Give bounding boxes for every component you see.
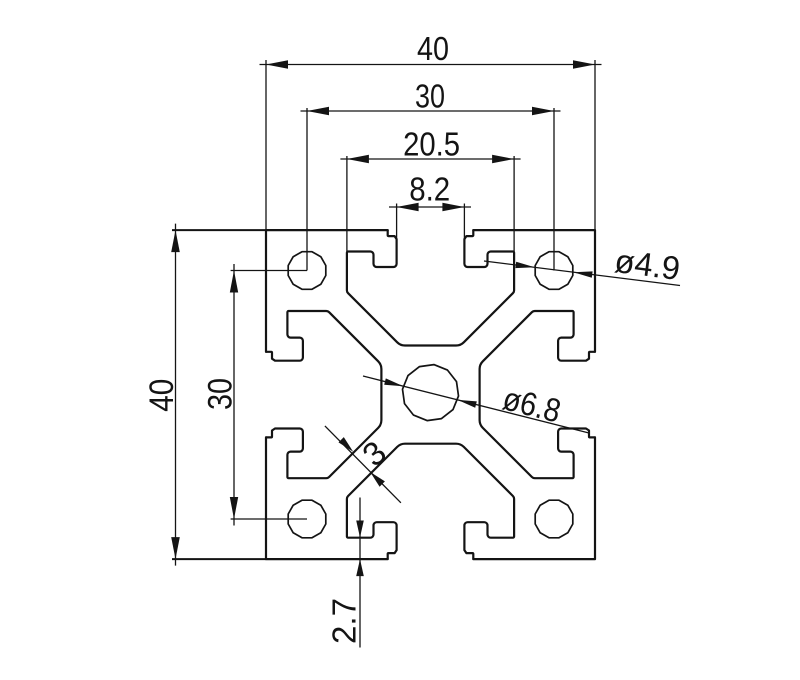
profile outer edge top-left corner [266,230,388,352]
corner screw hole bottom-right [535,500,573,538]
right T-slot cavity [480,311,595,478]
profile outer edge bottom-left corner [266,437,388,559]
dimension 3 (web wall thickness) [325,426,401,503]
svg-text:40: 40 [143,379,181,412]
svg-text:30: 30 [202,378,240,410]
corner screw hole top-left [288,252,326,290]
dimension 20.5 (cavity width) [340,126,520,253]
svg-text:40: 40 [417,30,449,67]
corner screw hole bottom-left [288,500,326,538]
profile outer edge bottom-right corner [473,437,595,559]
bottom T-slot cavity [347,444,514,559]
svg-text:2.7: 2.7 [326,598,363,644]
svg-text:30: 30 [415,78,445,115]
dimension 30 (top hole spacing) [301,78,561,271]
center bore hole [403,365,459,421]
corner screw hole top-right [535,252,573,290]
dimension 40 (top overall width) [260,30,602,230]
svg-text:8.2: 8.2 [409,171,450,208]
top T-slot cavity [347,230,514,345]
dimension 8.2 (slot opening) [389,171,471,240]
left T-slot cavity [266,311,381,478]
svg-text:20.5: 20.5 [403,126,460,163]
profile outer edge top-right corner [473,230,595,352]
dimension 2.7 (bottom wall thickness) [326,498,364,648]
dimension 40 (left overall height) [143,224,266,566]
dimension 30 (left hole spacing) [202,264,308,526]
dimension diameter 4.9 (corner hole) leader [484,242,682,287]
dimension diameter 6.8 (center bore) leader [363,376,589,433]
